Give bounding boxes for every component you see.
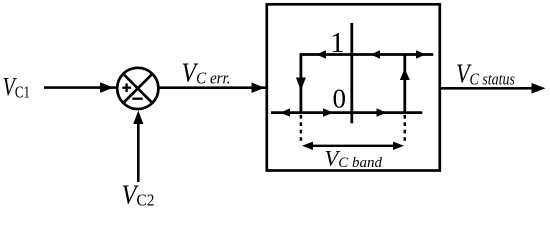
svg-text:VC1: VC1 — [3, 73, 31, 102]
arrow right at end of top line — [416, 50, 426, 58]
dashed line at upper threshold — [404, 115, 407, 144]
double-headed arrow V_C band span — [302, 142, 404, 150]
svg-text:VC err.: VC err. — [182, 57, 231, 87]
axis: vertical axis of hysteresis graph — [350, 23, 353, 123]
wire: hysteresis top line (output 1 level) with left transition corner — [301, 55, 433, 113]
arrow down on left transition — [296, 78, 306, 91]
arrow left on top line (near 1 label) — [317, 50, 327, 58]
arrow right on bottom line (left of axis) — [323, 108, 334, 116]
wire: V_C1 input to summing junction — [44, 82, 117, 93]
label V_C status — [456, 58, 515, 88]
wire: V_C2 input to summing junction — [133, 111, 143, 183]
label V_C1 — [3, 73, 31, 102]
wire: summing junction to comparator block (V_C err.) — [159, 83, 266, 94]
label V_C2 — [122, 180, 155, 210]
svg-text:VC band: VC band — [325, 146, 383, 172]
wire: right transition (rising edge) — [403, 55, 406, 113]
wire: comparator output (V_C status) — [440, 83, 546, 94]
arrow right on bottom line (right of axis) — [377, 108, 387, 116]
dashed line at lower threshold — [300, 115, 303, 144]
summing junction S1 — [117, 68, 158, 109]
svg-text:VC2: VC2 — [122, 180, 155, 210]
block: hysteresis comparator box — [267, 4, 440, 170]
label V_C err. — [182, 57, 231, 87]
wire: hysteresis bottom line (output 0 level) — [271, 111, 422, 114]
svg-text:VC status: VC status — [456, 58, 515, 88]
label V_C band — [325, 146, 383, 172]
arrow up on right transition — [400, 69, 410, 81]
svg-text:0: 0 — [333, 84, 347, 114]
arrow left on top line (right of axis) — [371, 50, 381, 58]
arrow left at start of bottom line — [280, 108, 290, 116]
